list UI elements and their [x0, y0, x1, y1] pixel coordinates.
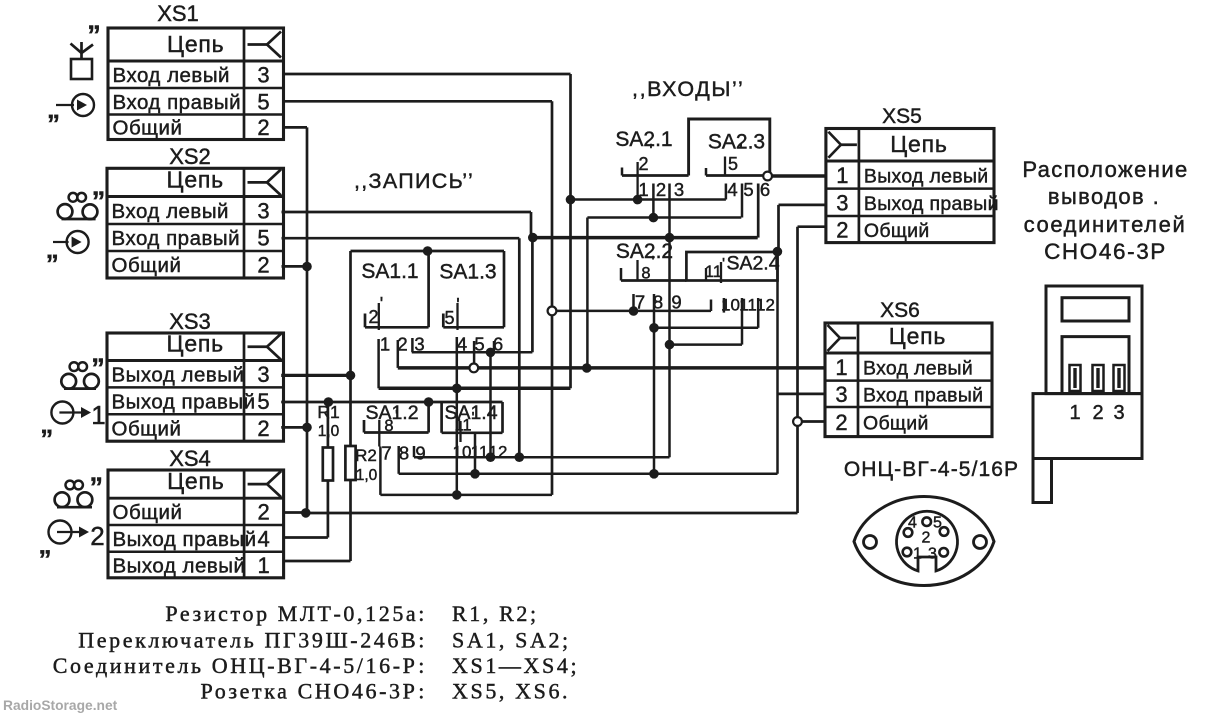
svg-text:11: 11 [471, 443, 489, 462]
svg-text:Расположение: Расположение [1022, 157, 1188, 182]
svg-text:11: 11 [739, 296, 757, 315]
svg-text:„: „ [46, 234, 59, 264]
svg-text:': ' [456, 295, 459, 315]
svg-text:XS5: XS5 [882, 105, 922, 128]
svg-text:': ' [471, 410, 474, 427]
svg-text:,,ЗАПИСЬ’’: ,,ЗАПИСЬ’’ [354, 169, 474, 193]
svg-text:5: 5 [933, 515, 942, 532]
svg-text:Цепь: Цепь [167, 331, 224, 357]
svg-text:R2: R2 [355, 446, 377, 465]
svg-text:Вход правый: Вход правый [112, 227, 241, 250]
svg-text:„: „ [40, 409, 53, 439]
svg-text:SA2.4: SA2.4 [726, 253, 779, 275]
svg-text:SA1.1: SA1.1 [361, 260, 418, 283]
svg-text:Вход правый: Вход правый [863, 384, 983, 406]
svg-text:4: 4 [908, 515, 917, 532]
svg-text:2: 2 [656, 179, 666, 200]
svg-text:SA2.2: SA2.2 [616, 240, 673, 263]
svg-text:Общий: Общий [864, 220, 930, 242]
svg-text:3: 3 [257, 362, 269, 387]
svg-text:XS1—XS4;: XS1—XS4; [452, 653, 579, 678]
svg-text:Выход правый: Выход правый [112, 390, 256, 413]
svg-text:4: 4 [257, 526, 269, 551]
svg-text:соединителей: соединителей [1024, 212, 1187, 237]
svg-text:8: 8 [384, 417, 393, 435]
svg-text:Цепь: Цепь [889, 323, 946, 349]
svg-text:SA2.3: SA2.3 [708, 131, 765, 154]
svg-text:6: 6 [493, 334, 503, 355]
svg-text:1,0: 1,0 [318, 423, 340, 440]
svg-text:2: 2 [836, 217, 848, 242]
svg-text:”: ” [90, 472, 104, 502]
svg-text:ОНЦ-ВГ-4-5/16Р: ОНЦ-ВГ-4-5/16Р [844, 458, 1019, 481]
svg-text:2: 2 [397, 334, 407, 355]
svg-text:11: 11 [454, 417, 471, 435]
svg-text:3: 3 [674, 179, 684, 200]
svg-text:9: 9 [415, 443, 425, 464]
svg-text:': ' [739, 141, 742, 161]
svg-text:Общий: Общий [863, 412, 929, 434]
svg-text:Переключатель ПГ39Ш-246В:: Переключатель ПГ39Ш-246В: [78, 628, 427, 653]
svg-text:7: 7 [635, 292, 645, 313]
svg-text:”: ” [87, 20, 101, 50]
svg-text:8: 8 [641, 265, 650, 283]
svg-text:1: 1 [1069, 402, 1080, 424]
svg-text:XS2: XS2 [169, 144, 211, 169]
svg-text:,,ВХОДЫ’’: ,,ВХОДЫ’’ [632, 77, 744, 101]
svg-text:Вход левый: Вход левый [112, 200, 230, 223]
svg-text:1: 1 [257, 553, 269, 578]
svg-text:3: 3 [257, 198, 269, 223]
svg-text:1: 1 [835, 355, 847, 380]
svg-text:Выход левый: Выход левый [112, 363, 245, 386]
svg-text:2: 2 [368, 307, 378, 327]
svg-text:4: 4 [727, 179, 737, 200]
svg-text:Цепь: Цепь [167, 167, 224, 193]
svg-text:выводов .: выводов . [1048, 184, 1160, 209]
svg-text:2: 2 [835, 410, 847, 435]
svg-text:7: 7 [381, 443, 391, 464]
svg-text:6: 6 [760, 179, 770, 200]
svg-text:8: 8 [653, 292, 663, 313]
svg-text:”: ” [92, 186, 106, 216]
svg-text:': ' [722, 256, 725, 273]
svg-text:': ' [380, 294, 383, 314]
svg-text:Общий: Общий [113, 501, 183, 524]
svg-text:Цепь: Цепь [167, 31, 224, 57]
svg-text:Выход правый: Выход правый [864, 193, 999, 215]
svg-text:2: 2 [90, 521, 104, 551]
svg-text:8: 8 [399, 443, 409, 464]
svg-text:1: 1 [380, 334, 390, 355]
svg-text:СНО46-3Р: СНО46-3Р [1044, 239, 1167, 264]
svg-text:Вход правый: Вход правый [113, 91, 242, 114]
svg-text:9: 9 [671, 292, 681, 313]
svg-text:1: 1 [836, 163, 848, 188]
svg-text:XS6: XS6 [880, 299, 920, 322]
svg-text:„: „ [39, 530, 52, 560]
svg-text:12: 12 [489, 443, 508, 462]
svg-text:5: 5 [444, 308, 454, 328]
svg-text:Соединитель ОНЦ-ВГ-4-5/16-Р:: Соединитель ОНЦ-ВГ-4-5/16-Р: [53, 653, 427, 678]
svg-text:5: 5 [257, 226, 269, 251]
svg-text:3: 3 [257, 63, 269, 88]
svg-text:2: 2 [257, 115, 269, 140]
svg-text:SA1.3: SA1.3 [439, 261, 496, 284]
svg-text:5: 5 [728, 154, 738, 174]
svg-text:3: 3 [414, 334, 424, 355]
svg-text:RadioStorage.net: RadioStorage.net [3, 698, 118, 713]
svg-text:10: 10 [721, 296, 740, 315]
svg-text:2: 2 [922, 530, 931, 547]
svg-text:Вход левый: Вход левый [113, 64, 231, 87]
svg-text:Цепь: Цепь [890, 131, 947, 157]
svg-text:': ' [395, 408, 398, 425]
svg-text:Розетка СНО46-3Р:: Розетка СНО46-3Р: [200, 679, 427, 704]
svg-text:R1: R1 [317, 402, 339, 422]
svg-text:SA1, SA2;: SA1, SA2; [452, 628, 571, 653]
svg-text:„: „ [47, 94, 60, 124]
svg-text:2: 2 [257, 416, 269, 441]
svg-text:”: ” [91, 353, 105, 383]
svg-text:': ' [649, 141, 652, 161]
svg-text:5: 5 [257, 389, 269, 414]
svg-text:4: 4 [457, 334, 467, 355]
svg-text:XS1: XS1 [157, 1, 199, 26]
svg-text:10: 10 [453, 443, 472, 462]
svg-text:Выход правый: Выход правый [113, 528, 257, 551]
svg-text:Выход левый: Выход левый [113, 554, 246, 577]
svg-text:Общий: Общий [112, 417, 182, 440]
svg-text:2: 2 [257, 500, 269, 525]
svg-text:SA2.1: SA2.1 [615, 128, 672, 151]
svg-text:1,0: 1,0 [356, 467, 378, 484]
svg-text:Вход левый: Вход левый [863, 357, 973, 379]
svg-text:Резистор МЛТ-0,125а:: Резистор МЛТ-0,125а: [165, 601, 427, 626]
svg-text:Общий: Общий [113, 117, 183, 140]
svg-text:R1, R2;: R1, R2; [452, 601, 539, 626]
svg-text:3: 3 [928, 546, 937, 563]
svg-text:Цепь: Цепь [167, 468, 224, 494]
svg-text:Выход левый: Выход левый [864, 165, 989, 187]
svg-text:Общий: Общий [112, 254, 182, 277]
svg-text:2: 2 [638, 154, 648, 174]
svg-text:5: 5 [474, 334, 484, 355]
svg-text:5: 5 [743, 179, 753, 200]
svg-text:3: 3 [835, 382, 847, 407]
svg-text:1: 1 [91, 400, 105, 430]
svg-text:1: 1 [638, 179, 648, 200]
svg-text:12: 12 [756, 296, 775, 315]
svg-text:3: 3 [836, 190, 848, 215]
svg-text:1: 1 [913, 546, 922, 563]
svg-text:2: 2 [1092, 402, 1103, 424]
svg-text:XS5, XS6.: XS5, XS6. [452, 679, 570, 704]
svg-text:3: 3 [1113, 402, 1124, 424]
svg-text:': ' [651, 254, 654, 271]
svg-text:5: 5 [257, 89, 269, 114]
svg-text:2: 2 [257, 253, 269, 278]
svg-text:11: 11 [705, 263, 722, 281]
